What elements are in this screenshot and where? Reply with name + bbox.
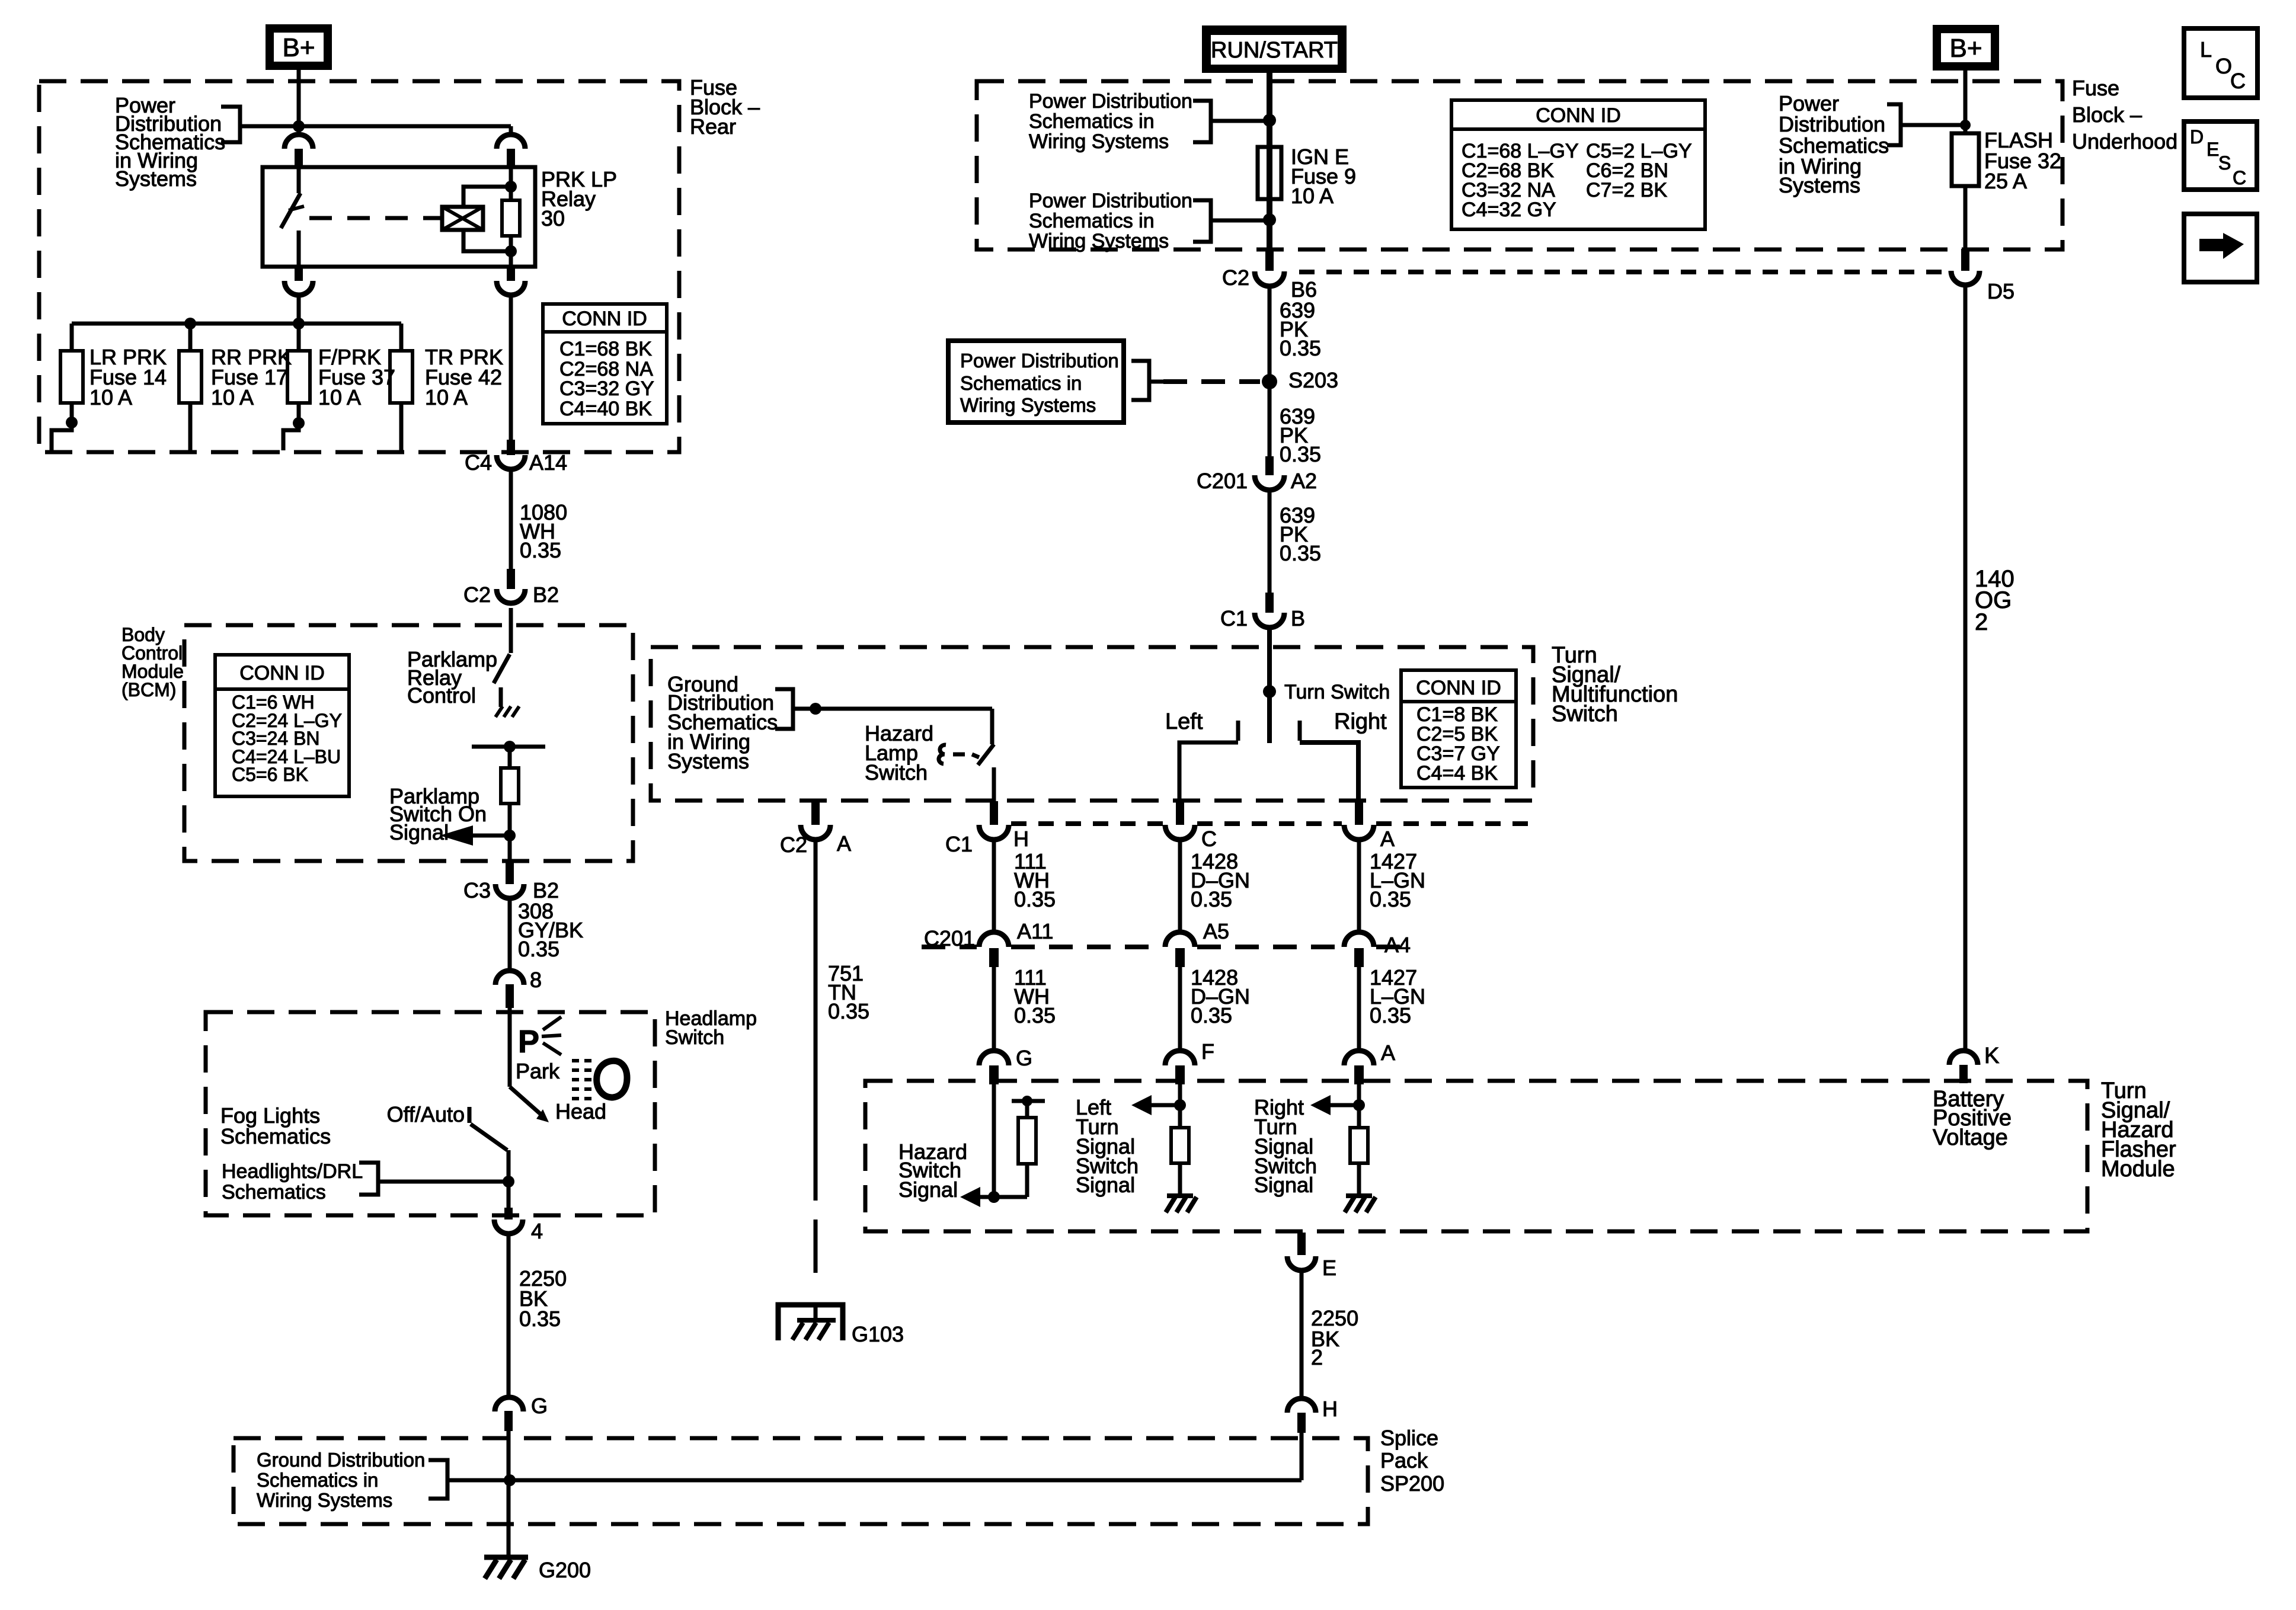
svg-text:P: P	[518, 1024, 539, 1060]
svg-text:Signal: Signal	[898, 1177, 958, 1202]
relay linkage dashed	[309, 216, 441, 220]
svg-text:Wiring Systems: Wiring Systems	[1029, 130, 1169, 153]
svg-text:CONN ID: CONN ID	[239, 662, 325, 684]
wire fuse bus	[72, 322, 401, 326]
label Body Control Module BCM	[121, 624, 184, 700]
svg-text:10 A: 10 A	[1291, 184, 1334, 208]
flasher module dashed box	[865, 1081, 2087, 1231]
label fuse 17	[211, 345, 292, 409]
label wire 639 PK 0.35 (1)	[1280, 298, 1321, 360]
label Fuse Block Underhood	[2072, 76, 2177, 153]
connector G flasher	[979, 1046, 1032, 1084]
svg-text:4: 4	[531, 1219, 543, 1243]
svg-text:Block –: Block –	[2072, 103, 2142, 127]
svg-text:C201: C201	[924, 926, 975, 950]
bracket ground note	[775, 689, 793, 729]
svg-text:SP200: SP200	[1380, 1471, 1444, 1496]
underhood fuse block dashed box	[977, 81, 2062, 249]
connector A4	[1344, 932, 1411, 967]
wire 1427 L-GN lower	[1357, 967, 1361, 1051]
svg-text:E: E	[1322, 1256, 1336, 1280]
svg-text:K: K	[1984, 1044, 1999, 1068]
svg-text:A: A	[1380, 827, 1395, 851]
label PRK LP Relay 30	[541, 167, 617, 231]
flasher hazard pull resistor	[1012, 1096, 1045, 1197]
wire 308 GY/BK	[508, 898, 512, 972]
svg-text:0.35: 0.35	[519, 1307, 561, 1331]
svg-text:C201: C201	[1197, 469, 1248, 493]
svg-text:Turn Switch: Turn Switch	[1284, 681, 1390, 703]
junction turn switch	[1263, 681, 1390, 703]
svg-text:Distribution: Distribution	[1779, 112, 1885, 136]
svg-text:H: H	[1013, 827, 1029, 851]
junction coil bottom	[505, 245, 517, 257]
wire 1428 D-GN lower	[1178, 967, 1182, 1051]
label Hazard Switch Signal	[898, 1140, 967, 1202]
conn id table turn switch	[1401, 670, 1516, 788]
svg-text:G: G	[1016, 1046, 1032, 1070]
icon box arrow	[2184, 214, 2257, 282]
svg-text:Schematics in: Schematics in	[1029, 210, 1155, 232]
svg-text:A4: A4	[1384, 933, 1411, 957]
splice pack dashed box	[234, 1438, 1368, 1524]
turn switch left contact	[1165, 709, 1238, 801]
BCM dashed box	[184, 625, 633, 861]
svg-text:Ground Distribution: Ground Distribution	[257, 1449, 425, 1471]
connector relay pin left	[284, 135, 313, 167]
svg-text:C4=40 BK: C4=40 BK	[559, 398, 652, 420]
svg-text:Switch: Switch	[865, 760, 928, 785]
svg-text:25 A: 25 A	[1984, 169, 2027, 193]
svg-text:C2: C2	[780, 833, 807, 857]
svg-text:Systems: Systems	[1779, 173, 1860, 197]
svg-text:Pack: Pack	[1380, 1448, 1428, 1473]
connector relay out left	[284, 268, 313, 295]
bracket headlights/DRL	[359, 1163, 378, 1195]
wire 1080 WH	[509, 469, 513, 569]
svg-text:G200: G200	[539, 1558, 591, 1582]
label Turn Signal Hazard Flasher Module	[2101, 1078, 2176, 1182]
junction headlights/DRL tap	[378, 1176, 514, 1188]
fuse IGN E Fuse 9	[1258, 147, 1281, 199]
wire E to H	[1300, 1270, 1304, 1398]
svg-text:0.35: 0.35	[520, 538, 561, 562]
label fuse 37	[318, 345, 395, 409]
wire relay right out down	[509, 295, 513, 440]
label wire 639 PK 0.35 (3)	[1280, 503, 1321, 565]
svg-text:L: L	[2200, 37, 2212, 62]
node parklamp switch on signal	[440, 825, 516, 846]
hazard lamp switch	[939, 744, 994, 801]
label wire 308 GY/BK 0.35	[518, 899, 583, 961]
dotted connector line C2 to D5	[1299, 270, 1949, 274]
wire G to G200	[507, 1431, 511, 1557]
right turn signal branch	[1310, 1084, 1365, 1128]
junction right feed	[1960, 120, 1971, 130]
svg-text:C1: C1	[945, 832, 973, 856]
svg-text:0.35: 0.35	[1280, 442, 1321, 466]
wire FLASH fuse to D5	[1964, 186, 1968, 249]
svg-text:C: C	[2233, 167, 2246, 188]
label wire 2250 BK 0.35	[519, 1266, 567, 1331]
svg-text:D5: D5	[1987, 279, 2014, 303]
svg-text:C4: C4	[465, 450, 492, 475]
fuse FLASH Fuse 32	[1952, 133, 1979, 186]
splice S203	[1262, 368, 1338, 392]
label Park	[516, 1059, 560, 1083]
svg-text:G: G	[531, 1394, 548, 1418]
BCM driver hash	[495, 706, 519, 717]
svg-text:Schematics in: Schematics in	[960, 372, 1082, 394]
svg-text:D: D	[2190, 126, 2204, 148]
headlamp switch dashed box	[206, 1012, 655, 1215]
connector E	[1287, 1233, 1336, 1280]
hazard switch signal branch	[960, 1084, 1027, 1207]
connector F flasher	[1165, 1039, 1214, 1084]
svg-text:S203: S203	[1288, 368, 1338, 392]
label wire 1080 WH 0.35	[520, 500, 567, 562]
svg-text:A: A	[1381, 1041, 1395, 1065]
svg-text:Left: Left	[1165, 709, 1203, 734]
svg-text:A2: A2	[1291, 469, 1317, 493]
svg-text:CONN ID: CONN ID	[562, 308, 647, 330]
svg-text:A14: A14	[529, 450, 567, 475]
label Parklamp Relay Control	[407, 647, 497, 708]
label wire 1428 D-GN 0.35 (1)	[1191, 849, 1250, 911]
conn id table BCM	[215, 655, 349, 796]
ground G200	[484, 1557, 591, 1582]
label Battery Positive Voltage	[1933, 1087, 2012, 1150]
connector 8 headlamp switch	[495, 968, 542, 1008]
icon box DESC	[2184, 121, 2257, 190]
svg-text:C: C	[1201, 827, 1217, 851]
svg-text:F: F	[1201, 1039, 1214, 1064]
svg-text:Schematics in: Schematics in	[257, 1469, 378, 1491]
svg-text:Schematics: Schematics	[220, 1124, 331, 1148]
label Fuse Block Rear	[690, 75, 760, 139]
fuse RR PRK Fuse 17	[179, 351, 202, 450]
svg-text:C5=6 BK: C5=6 BK	[232, 764, 308, 785]
power symbol B+ (fuse block rear feed)	[266, 24, 332, 70]
relay K30 box	[263, 167, 535, 267]
wire turn switch pole	[1267, 628, 1272, 743]
svg-text:H: H	[1322, 1397, 1338, 1421]
wire 1428 D-GN upper	[1178, 840, 1182, 932]
bracket S203 note	[1131, 361, 1163, 400]
svg-text:0.35: 0.35	[1191, 1003, 1232, 1028]
label wire 1427 L-GN 0.35 (2)	[1370, 965, 1425, 1028]
connector C1 B	[1220, 593, 1305, 630]
svg-text:0.35: 0.35	[1370, 1003, 1411, 1028]
ground left turn	[1166, 1196, 1197, 1212]
svg-text:B: B	[1291, 606, 1305, 630]
wire splice riser to H	[1300, 1433, 1304, 1480]
svg-text:10 A: 10 A	[89, 385, 132, 409]
wire splice bus	[447, 1478, 1302, 1483]
label Headlights/DRL Schematics	[222, 1160, 363, 1204]
dashed link to S203	[1163, 379, 1260, 384]
svg-text:Off/Auto: Off/Auto	[387, 1102, 465, 1126]
svg-text:(BCM): (BCM)	[121, 679, 176, 700]
svg-text:30: 30	[541, 206, 565, 231]
label Head	[555, 1099, 606, 1124]
label Off/Auto	[387, 1102, 465, 1126]
svg-text:C: C	[2230, 69, 2246, 93]
svg-text:Module: Module	[2101, 1157, 2175, 1182]
connector C4 A14	[465, 440, 567, 475]
label fuse 14	[89, 345, 167, 409]
label wire 111 WH 0.35 (1)	[1014, 849, 1056, 911]
connector C201 A11	[924, 919, 1053, 967]
BCM node bar	[472, 741, 545, 753]
svg-text:Schematics: Schematics	[222, 1181, 326, 1204]
label Hazard Lamp Switch	[865, 721, 933, 785]
ground right turn	[1345, 1196, 1376, 1212]
svg-text:8: 8	[530, 968, 542, 992]
fuse LR PRK Fuse 14	[52, 351, 83, 450]
wire 2250 BK	[507, 1234, 511, 1395]
wire 639 PK lower	[1268, 490, 1272, 596]
connector C2 A hazard ground	[780, 801, 851, 857]
svg-text:C2: C2	[463, 582, 491, 607]
BCM driver switch	[494, 608, 511, 707]
svg-text:Power Distribution: Power Distribution	[1029, 90, 1192, 113]
dashed connector line C201 row	[922, 945, 1406, 949]
connector A flasher	[1344, 1041, 1395, 1084]
svg-text:C7=2 BK: C7=2 BK	[1586, 179, 1667, 201]
label IGN E Fuse 9 10 A	[1291, 145, 1356, 208]
svg-text:2: 2	[1311, 1345, 1323, 1369]
svg-text:A11: A11	[1017, 919, 1053, 943]
svg-text:C4=4 BK: C4=4 BK	[1416, 762, 1498, 785]
label Left Turn Signal Switch Signal	[1076, 1095, 1139, 1197]
ground G103	[778, 1305, 904, 1346]
relay resistor	[502, 167, 520, 267]
bracket to power distribution note	[221, 107, 240, 142]
svg-text:CONN ID: CONN ID	[1416, 677, 1501, 699]
wire 751 TN	[814, 840, 818, 1295]
connector K	[1949, 1044, 1999, 1083]
svg-text:C1: C1	[1220, 606, 1248, 630]
label wire 1427 L-GN 0.35 (1)	[1370, 849, 1425, 911]
turn switch right contact	[1300, 709, 1387, 801]
label wire 140 OG 2	[1975, 566, 2014, 635]
headlamp switch park blade	[510, 1008, 549, 1122]
headlamp park icon	[518, 1017, 561, 1060]
junction hazard feed	[810, 703, 821, 715]
label wire 1428 D-GN 0.35 (2)	[1191, 965, 1250, 1028]
svg-text:Splice: Splice	[1380, 1426, 1438, 1450]
connector relay pin right	[497, 135, 525, 167]
icon box LOC	[2184, 28, 2257, 98]
wire 111 WH lower	[992, 967, 996, 1051]
conn id table fuse block rear	[543, 304, 667, 424]
connector H	[1287, 1397, 1338, 1433]
svg-text:0.35: 0.35	[1370, 887, 1411, 911]
connector C2 B6	[1222, 249, 1317, 302]
label Turn Signal Multifunction Switch	[1552, 643, 1678, 726]
junction splice at G200 wire	[504, 1474, 516, 1486]
svg-text:A: A	[837, 831, 851, 856]
left turn signal branch	[1131, 1084, 1186, 1128]
label wire 111 WH 0.35 (2)	[1014, 965, 1056, 1028]
note Power Distribution Schematics (left)	[115, 93, 225, 191]
svg-text:Headlights/DRL: Headlights/DRL	[222, 1160, 363, 1183]
svg-text:Underhood: Underhood	[2072, 129, 2177, 153]
svg-text:Wiring Systems: Wiring Systems	[960, 394, 1096, 416]
svg-text:10 A: 10 A	[318, 385, 361, 409]
junction coil top	[505, 181, 517, 193]
note Power Distribution Schematics in Wiring Systems (upper)	[1029, 90, 1192, 153]
svg-text:Park: Park	[516, 1059, 560, 1083]
label FLASH Fuse 32 25 A	[1984, 128, 2061, 193]
connector 4	[494, 1208, 543, 1243]
label Splice Pack SP200	[1380, 1426, 1444, 1496]
wire bus drops to fuses	[72, 324, 401, 351]
wire 111 WH upper	[992, 840, 996, 932]
label Parklamp Switch On Signal	[389, 784, 487, 844]
label Headlamp Switch	[665, 1007, 757, 1049]
svg-text:C3=32 GY: C3=32 GY	[559, 377, 654, 400]
connector A (right turn out)	[1344, 801, 1395, 851]
label wire 751 TN 0.35	[828, 961, 869, 1023]
connector C2 B2	[463, 569, 559, 607]
svg-text:O: O	[2215, 54, 2232, 78]
svg-text:0.35: 0.35	[1280, 336, 1321, 360]
svg-text:0.35: 0.35	[1014, 887, 1056, 911]
connector A5	[1165, 919, 1229, 967]
wire hazard feed	[793, 709, 992, 744]
svg-text:0.35: 0.35	[1191, 887, 1232, 911]
junction bus at F/PRK	[293, 318, 305, 329]
svg-text:2: 2	[1975, 609, 1988, 635]
svg-text:Wiring Systems: Wiring Systems	[1029, 230, 1169, 252]
junction bus at RR PRK	[184, 318, 196, 329]
wire horizontal feed to relay right pin	[240, 126, 511, 135]
bracket right note	[1887, 104, 1965, 145]
svg-text:S: S	[2218, 152, 2231, 174]
svg-text:Signal: Signal	[1076, 1173, 1135, 1197]
note Power Distribution Schematics in Wiring Systems (lower)	[1029, 190, 1192, 252]
label Ground Distribution Schematics	[257, 1449, 425, 1511]
svg-text:E: E	[2207, 139, 2219, 160]
connector relay out right	[497, 268, 525, 295]
label wire 2250 BK 2	[1311, 1306, 1358, 1369]
wire relay to fuse bus	[297, 295, 301, 324]
BCM pull resistor	[501, 747, 519, 861]
connector C1 H	[945, 801, 1029, 856]
wire 639 PK upper	[1268, 286, 1272, 475]
svg-text:Rear: Rear	[690, 114, 736, 139]
wire 1427 L-GN upper	[1357, 840, 1361, 932]
junction on B+ wire	[293, 120, 305, 132]
relay switch contact	[281, 167, 304, 267]
note Power Distribution Schematics (right)	[1779, 91, 1889, 197]
svg-text:Right: Right	[1334, 709, 1387, 734]
svg-text:Power Distribution: Power Distribution	[960, 350, 1119, 372]
svg-text:Fuse: Fuse	[2072, 76, 2119, 100]
fuse TR PRK Fuse 42	[390, 351, 412, 450]
label wire 639 PK 0.35 (2)	[1280, 404, 1321, 466]
headlamp beam icon	[572, 1061, 627, 1099]
wire B+ down	[297, 70, 301, 135]
svg-text:RUN/START: RUN/START	[1211, 38, 1338, 63]
wire B+ to FLASH fuse	[1964, 71, 1968, 133]
connector C (left turn out)	[1165, 801, 1217, 851]
fuse block rear dashed box	[39, 81, 679, 452]
right turn resistor	[1350, 1128, 1368, 1196]
svg-text:0.35: 0.35	[518, 937, 559, 961]
svg-text:0.35: 0.35	[1280, 541, 1321, 565]
junction ign feed lower	[1263, 213, 1276, 226]
fuse F/PRK Fuse 37	[283, 351, 310, 450]
wire 140 OG	[1964, 285, 1968, 1051]
label Right Turn Signal Switch Signal	[1254, 1095, 1317, 1197]
svg-text:10 A: 10 A	[211, 385, 254, 409]
svg-text:A5: A5	[1203, 919, 1229, 943]
connector C201 A2	[1197, 456, 1317, 493]
junction ign feed upper	[1263, 114, 1276, 127]
svg-text:C2: C2	[1222, 265, 1249, 290]
wire RUN/START down to IGN E fuse	[1267, 73, 1272, 249]
svg-text:B+: B+	[282, 33, 315, 62]
svg-text:10 A: 10 A	[425, 385, 468, 409]
relay coil	[442, 207, 483, 230]
svg-text:C4=32 GY: C4=32 GY	[1462, 199, 1556, 221]
svg-text:Control: Control	[407, 683, 476, 708]
power symbol RUN/START	[1202, 25, 1347, 73]
label Fog Lights Schematics	[220, 1103, 331, 1148]
bracket upper note	[1193, 101, 1269, 142]
power symbol B+ (underhood)	[1933, 25, 1999, 71]
svg-text:B+: B+	[1949, 34, 1982, 63]
left turn resistor	[1171, 1128, 1189, 1196]
svg-text:Power Distribution: Power Distribution	[1029, 190, 1192, 212]
bracket ground distribution	[428, 1460, 447, 1499]
svg-text:Switch: Switch	[1552, 702, 1618, 726]
svg-text:Systems: Systems	[667, 749, 749, 773]
dotted connector line row1	[1011, 821, 1532, 826]
relay coil leads	[463, 187, 511, 251]
svg-text:Systems: Systems	[115, 167, 197, 191]
svg-text:Voltage: Voltage	[1933, 1125, 2008, 1150]
svg-text:0.35: 0.35	[1014, 1003, 1056, 1028]
note box Power Distribution Schematics (solid)	[948, 341, 1124, 422]
connector G	[495, 1394, 548, 1431]
connector D5	[1951, 249, 2014, 303]
svg-text:Signal: Signal	[389, 820, 449, 844]
svg-text:Head: Head	[555, 1099, 606, 1124]
svg-text:Signal: Signal	[1254, 1173, 1313, 1197]
svg-text:C1=68 BK: C1=68 BK	[559, 338, 652, 360]
connector C3 B2	[463, 861, 559, 902]
svg-text:Schematics in: Schematics in	[1029, 110, 1155, 133]
svg-text:G103: G103	[852, 1322, 904, 1346]
svg-text:Wiring Systems: Wiring Systems	[257, 1489, 392, 1511]
bracket lower note	[1193, 200, 1269, 242]
svg-text:CONN ID: CONN ID	[1536, 104, 1621, 127]
note Ground Distribution Schematics	[667, 672, 778, 773]
svg-text:B2: B2	[533, 582, 559, 607]
svg-text:Switch: Switch	[665, 1026, 724, 1049]
svg-text:C3: C3	[463, 878, 491, 902]
turn signal multifunction switch dashed box	[651, 647, 1533, 801]
svg-text:0.35: 0.35	[828, 999, 869, 1023]
conn id table underhood	[1451, 100, 1705, 229]
label fuse 42	[425, 345, 503, 409]
headlamp switch blade off/auto	[469, 1107, 509, 1215]
